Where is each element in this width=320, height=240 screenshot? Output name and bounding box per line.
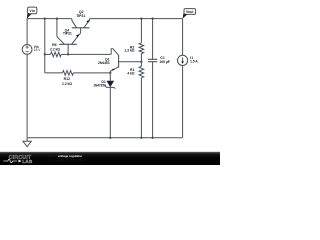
- wire Q4 collector drop: [56, 19, 58, 37]
- svg-text:TIP31: TIP31: [76, 14, 85, 18]
- wire top rail left segment: [27, 18, 72, 20]
- wire C1 bottom lead: [152, 62, 154, 138]
- wire R2 top lead: [140, 19, 142, 43]
- svg-text:100 µF: 100 µF: [159, 60, 170, 64]
- wire top rail right segment: [90, 18, 183, 20]
- resistor R12: [62, 71, 110, 76]
- wire C1 top lead: [152, 19, 154, 60]
- current source I1: [178, 55, 188, 65]
- junction top rail / Q4 collector: [56, 18, 58, 20]
- junction bottom rail / R1: [140, 137, 142, 139]
- value label Q4 TIP31: [63, 28, 72, 35]
- svg-text:2N4401: 2N4401: [98, 61, 110, 65]
- junction left drop / R6: [44, 53, 46, 55]
- resistor R2: [139, 43, 144, 62]
- svg-text:R6: R6: [52, 43, 57, 47]
- value label R2 1.3 kOhm: [124, 45, 134, 52]
- junction Q1 emitter / R12 / D1: [109, 72, 111, 74]
- transistor Q4: [57, 33, 81, 54]
- junction bottom rail / C1: [152, 137, 154, 139]
- resistor R1: [139, 62, 144, 138]
- wire R6 junction to Q1 collector bend: [68, 53, 111, 55]
- junction bottom rail / D1: [109, 137, 111, 139]
- svg-text:Vout: Vout: [186, 10, 194, 14]
- svg-text:18 V: 18 V: [34, 48, 41, 52]
- wire Q1 collector bend: [111, 49, 113, 55]
- transistor Q2: [72, 19, 90, 34]
- wire D1 anode lead: [109, 73, 111, 81]
- svg-text:2.2 kΩ: 2.2 kΩ: [50, 47, 60, 51]
- ground: [23, 138, 31, 147]
- svg-text:1.5 A: 1.5 A: [190, 60, 198, 64]
- value label Q2 TIP31: [76, 10, 85, 18]
- svg-text:TIP31: TIP31: [63, 32, 72, 36]
- value label R1 4 kOhm: [127, 68, 135, 76]
- junction top rail / left drop: [44, 18, 46, 20]
- resistor R6: [45, 52, 68, 57]
- svg-text:jhurst / voltage regulator: jhurst / voltage regulator: [47, 154, 83, 158]
- wire bottom rail: [27, 137, 183, 139]
- value label R6 2.2 kOhm: [50, 43, 60, 51]
- wire D1 cathode lead: [109, 87, 111, 137]
- footer title text: [47, 154, 87, 162]
- value label D1 1N4735A: [93, 80, 107, 88]
- wire I1 bottom lead: [182, 66, 184, 138]
- svg-text:R12: R12: [64, 77, 70, 81]
- transistor Q1: [110, 49, 118, 73]
- wire V1 top lead: [26, 19, 28, 45]
- junction top rail / C1: [152, 18, 154, 20]
- footer: [0, 152, 220, 165]
- value label I1 1.5 A: [190, 56, 198, 63]
- value label Q1 2N4401: [98, 57, 110, 65]
- node Vin flag: [27, 7, 37, 19]
- svg-text:1.2 kΩ: 1.2 kΩ: [62, 82, 72, 86]
- wire Q1 base to divider: [119, 61, 142, 63]
- voltage source V1: [22, 45, 32, 55]
- junction divider R2/R1/Q1 base: [140, 61, 142, 63]
- svg-text:http://circuitlab.com/c/25rt3T: http://circuitlab.com/c/25rt3TRq72/: [49, 159, 87, 162]
- capacitor C1: [148, 59, 157, 61]
- junction R6 / Q4 base: [67, 53, 69, 55]
- wire V1 bottom lead: [26, 54, 28, 138]
- diode D1 (zener): [105, 81, 115, 89]
- junction top rail / R2: [140, 18, 142, 20]
- node Vout flag: [183, 9, 196, 19]
- value label C1 100 uF: [159, 56, 170, 64]
- wire R12 left feed: [45, 72, 63, 74]
- svg-text:4 kΩ: 4 kΩ: [127, 72, 135, 76]
- svg-text:1N4735A: 1N4735A: [93, 83, 107, 87]
- value label R12 1.2 kOhm: [62, 77, 72, 86]
- value label V1 Vin 18 V: [34, 45, 41, 52]
- footer logo CIRCUIT LAB: [3, 155, 32, 164]
- svg-text:Vin: Vin: [29, 9, 35, 13]
- svg-text:LAB: LAB: [22, 159, 33, 164]
- wire left drop from top rail to R12 row: [44, 19, 46, 73]
- svg-text:1.3 kΩ: 1.3 kΩ: [124, 49, 134, 53]
- wire I1 top lead: [182, 19, 184, 56]
